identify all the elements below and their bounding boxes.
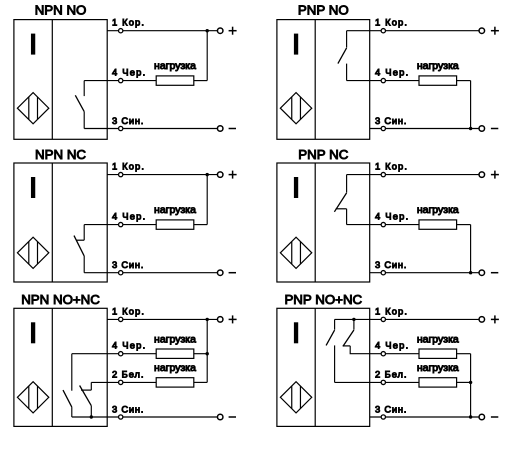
svg-text:нагрузка: нагрузка — [417, 204, 459, 216]
svg-text:4 Чер.: 4 Чер. — [375, 340, 408, 351]
svg-text:нагрузка: нагрузка — [417, 333, 459, 345]
svg-text:нагрузка: нагрузка — [154, 204, 196, 216]
svg-text:NPN NO: NPN NO — [35, 3, 87, 18]
svg-text:2 Бел.: 2 Бел. — [112, 368, 144, 379]
svg-text:3 Син.: 3 Син. — [112, 259, 143, 270]
svg-text:1 Кор.: 1 Кор. — [112, 161, 144, 172]
svg-text:1 Кор.: 1 Кор. — [375, 17, 407, 28]
svg-text:PNP NC: PNP NC — [298, 147, 348, 162]
svg-text:NPN NO+NC: NPN NO+NC — [21, 292, 100, 307]
svg-text:1 Кор.: 1 Кор. — [112, 305, 144, 316]
svg-text:PNP NO+NC: PNP NO+NC — [284, 292, 362, 307]
svg-text:4 Чер.: 4 Чер. — [112, 211, 145, 222]
svg-text:нагрузка: нагрузка — [417, 362, 459, 374]
svg-text:нагрузка: нагрузка — [417, 60, 459, 72]
svg-text:4 Чер.: 4 Чер. — [375, 211, 408, 222]
svg-text:3 Син.: 3 Син. — [375, 115, 406, 126]
svg-text:3 Син.: 3 Син. — [112, 115, 143, 126]
svg-text:1 Кор.: 1 Кор. — [375, 305, 407, 316]
svg-text:нагрузка: нагрузка — [154, 362, 196, 374]
svg-text:PNP NO: PNP NO — [298, 3, 349, 18]
svg-text:3 Син.: 3 Син. — [375, 259, 406, 270]
svg-text:4 Чер.: 4 Чер. — [375, 67, 408, 78]
svg-text:2 Бел.: 2 Бел. — [375, 368, 407, 379]
svg-text:1 Кор.: 1 Кор. — [112, 17, 144, 28]
svg-text:нагрузка: нагрузка — [154, 333, 196, 345]
svg-text:1 Кор.: 1 Кор. — [375, 161, 407, 172]
svg-text:4 Чер.: 4 Чер. — [112, 340, 145, 351]
svg-text:нагрузка: нагрузка — [154, 60, 196, 72]
svg-text:3 Син.: 3 Син. — [112, 403, 143, 414]
svg-text:NPN NC: NPN NC — [35, 147, 86, 162]
svg-text:3 Син.: 3 Син. — [375, 403, 406, 414]
svg-text:4 Чер.: 4 Чер. — [112, 67, 145, 78]
